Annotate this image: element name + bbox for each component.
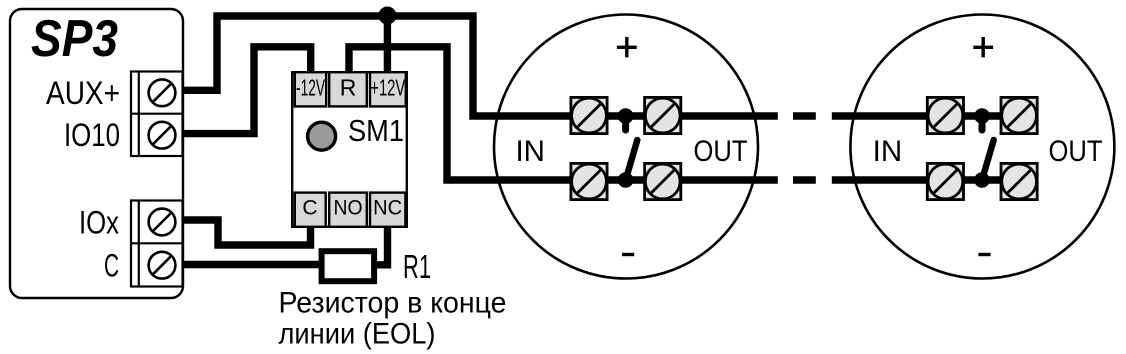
svg-text:SP3: SP3 (31, 10, 118, 68)
svg-text:IN: IN (873, 135, 903, 168)
svg-text:-12V: -12V (296, 75, 325, 101)
svg-text:NC: NC (373, 197, 402, 220)
svg-text:SM1: SM1 (348, 113, 404, 148)
svg-text:C: C (104, 248, 119, 284)
svg-text:+12V: +12V (370, 75, 405, 101)
svg-text:линии (EOL): линии (EOL) (279, 318, 436, 351)
svg-text:NO: NO (334, 197, 363, 220)
svg-text:R1: R1 (403, 248, 431, 285)
svg-text:IOx: IOx (79, 205, 119, 241)
svg-text:AUX+: AUX+ (46, 75, 120, 111)
svg-text:OUT: OUT (1049, 135, 1103, 168)
svg-text:OUT: OUT (694, 135, 748, 168)
svg-text:IO10: IO10 (64, 117, 120, 153)
svg-text:Резистор в конце: Резистор в конце (279, 287, 507, 320)
svg-text:R: R (340, 75, 357, 101)
svg-text:IN: IN (515, 135, 545, 168)
svg-text:C: C (302, 197, 317, 220)
